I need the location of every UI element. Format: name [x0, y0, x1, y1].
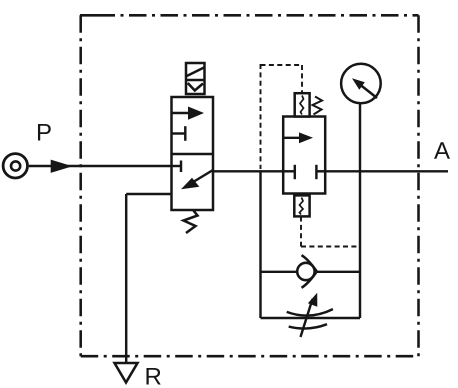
flow direction arrow on P line [51, 160, 73, 173]
port P symbol [3, 154, 27, 178]
label P [38, 124, 51, 141]
label A [434, 142, 450, 159]
label R [146, 368, 160, 385]
regulator blocked port right [316, 170, 325, 172]
flow control box top line with check valve [261, 271, 361, 273]
pilot dashed box around regulator [261, 64, 303, 169]
regulator blocked port left [283, 170, 295, 172]
exhaust silencer triangle R [115, 363, 138, 383]
wire gauge / flow-control right connector [359, 104, 361, 319]
valve V1 bottom box blocked port [172, 165, 182, 167]
enclosure border left [79, 15, 82, 356]
valve V1 bottom box exhaust arrow [189, 170, 213, 185]
enclosure border bottom [81, 355, 419, 358]
pressure gauge [341, 64, 381, 104]
wire flow-control left connector [259, 170, 261, 318]
pilot dashed line lower [301, 217, 357, 247]
spring return below valve V1 [184, 210, 198, 233]
check valve circle [297, 263, 314, 280]
flow control box bottom line [261, 317, 361, 319]
wire P supply line [29, 165, 172, 167]
valve V1 top box flow arrow [172, 112, 195, 114]
regulator upper pilot element [295, 93, 310, 116]
throttle adjustment arrow [301, 299, 313, 337]
valve V1 top box blocked port [172, 132, 186, 134]
enclosure border top [80, 14, 419, 17]
wire R exhaust line horizontal [126, 193, 171, 195]
regulator V2 body [283, 117, 325, 194]
regulator flow arrow [284, 137, 301, 139]
wire R exhaust line vertical [125, 194, 127, 363]
regulator lower pilot element [294, 195, 309, 216]
regulator adjustment spring [313, 97, 323, 115]
valve V1 position divider [172, 153, 214, 156]
check valve seat [302, 255, 317, 288]
valve V1 3/2 body [172, 97, 214, 210]
solenoid actuator [186, 63, 205, 94]
throttle upper arc [287, 309, 333, 315]
throttle lower arc [289, 324, 327, 328]
enclosure border right [417, 15, 420, 356]
wire A output line [213, 170, 448, 172]
